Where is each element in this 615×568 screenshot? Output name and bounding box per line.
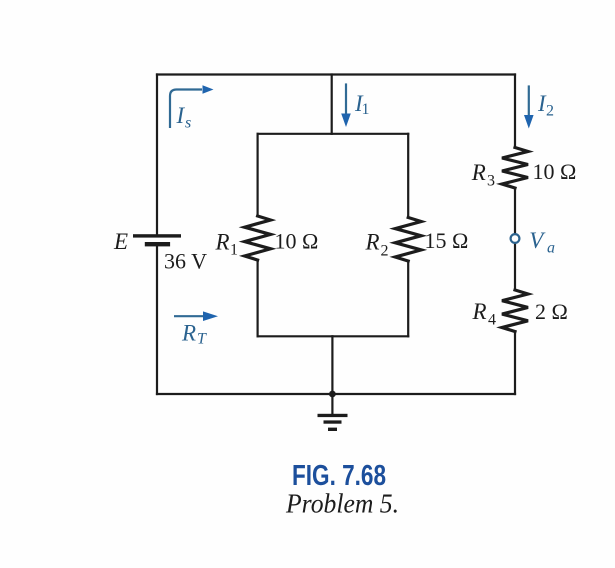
svg-text:T: T bbox=[197, 331, 207, 348]
svg-text:I: I bbox=[176, 103, 186, 128]
svg-text:Problem 5.: Problem 5. bbox=[285, 487, 399, 518]
svg-text:E: E bbox=[113, 229, 128, 254]
svg-text:2: 2 bbox=[381, 242, 389, 259]
svg-text:1: 1 bbox=[362, 101, 370, 118]
svg-text:R: R bbox=[181, 321, 196, 346]
svg-text:s: s bbox=[185, 115, 191, 132]
svg-text:3: 3 bbox=[487, 173, 495, 190]
svg-text:V: V bbox=[529, 228, 546, 253]
svg-text:a: a bbox=[547, 240, 555, 257]
svg-text:R: R bbox=[472, 299, 487, 324]
svg-text:2 Ω: 2 Ω bbox=[535, 299, 568, 324]
svg-text:1: 1 bbox=[230, 242, 238, 259]
svg-text:4: 4 bbox=[488, 312, 496, 329]
svg-text:R: R bbox=[215, 229, 230, 254]
svg-text:36 V: 36 V bbox=[164, 249, 207, 274]
svg-text:R: R bbox=[365, 229, 380, 254]
svg-text:2: 2 bbox=[546, 103, 554, 120]
svg-text:10 Ω: 10 Ω bbox=[533, 159, 577, 184]
svg-text:R: R bbox=[471, 160, 486, 185]
svg-text:15 Ω: 15 Ω bbox=[425, 228, 469, 253]
svg-text:10 Ω: 10 Ω bbox=[275, 228, 319, 253]
